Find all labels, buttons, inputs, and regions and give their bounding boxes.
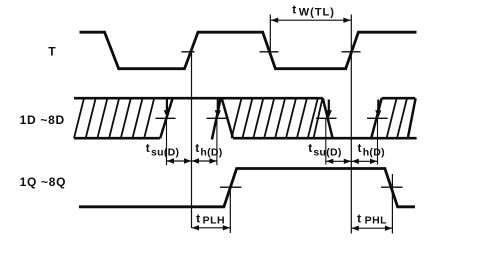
tick on th1 edge	[207, 117, 228, 119]
tick on T rising edge 2	[342, 51, 361, 53]
tick on Q rising edge	[220, 186, 242, 188]
dimension tW(TL) left bar	[269, 15, 271, 52]
transition edge rising at end of stable-high window (th1 edge)	[212, 98, 221, 139]
reference line A from T rising edge 1	[191, 52, 193, 228]
reference line B from T rising edge 2	[350, 52, 352, 234]
dimension th1 arrow line	[192, 160, 217, 162]
down arrow onto tsu2 edge	[328, 100, 330, 111]
tick on Q falling edge	[381, 186, 403, 188]
extension line below tsu1 tick	[166, 118, 168, 165]
extension line below tsu2 tick	[325, 118, 327, 164]
bus bottom rail (band2 through band3)	[233, 137, 417, 140]
dimension tW(TL) left arrowhead	[271, 18, 278, 23]
dimension tPLH right bar	[229, 188, 231, 233]
bus bottom rail band1	[74, 137, 160, 140]
closing edge band3	[408, 98, 416, 138]
extension line below th1 tick	[216, 118, 218, 165]
dimension tsu2 arrow line	[326, 160, 352, 162]
tick on T falling edge 2	[260, 51, 279, 53]
svg-text:1D ~8D: 1D ~8D	[20, 113, 65, 127]
dimension tW(TL) right bar	[350, 15, 352, 52]
bus top rail (band1 through band2)	[74, 97, 323, 100]
hatching band1	[74, 98, 154, 138]
dimension tPHL right bar	[391, 174, 393, 234]
dimension tPLH arrow line	[192, 227, 231, 229]
down arrow onto tsu1 edge	[166, 100, 168, 111]
dimension tPHL arrow line	[351, 227, 392, 229]
bus top rail band3	[382, 97, 416, 100]
down arrow onto th1 edge	[217, 100, 219, 111]
tick on T rising edge 1	[182, 51, 195, 53]
extension line below th2 tick	[377, 118, 379, 164]
svg-text:tPHL: tPHL	[357, 211, 387, 226]
svg-text:th(D): th(D)	[358, 141, 385, 159]
hatching band3	[387, 98, 407, 138]
svg-text:tW(TL): tW(TL)	[292, 2, 335, 18]
dimension th2 arrow line	[351, 160, 377, 162]
svg-text:tsu(D): tsu(D)	[146, 141, 180, 159]
down arrow onto th2 edge	[377, 100, 379, 111]
svg-text:T: T	[48, 45, 56, 59]
svg-text:th(D): th(D)	[195, 141, 222, 159]
tick on tsu1 edge	[156, 117, 176, 119]
transition edge rising into stable-high window (tsu1 edge)	[160, 98, 172, 138]
dimension tW(TL) right arrowhead	[343, 18, 350, 23]
waveform T	[80, 32, 417, 68]
svg-text:tPLH: tPLH	[196, 211, 225, 226]
tick on tsu2 edge	[316, 117, 337, 119]
rising transition edge at end of stable-low window (th2 edge)	[371, 98, 382, 139]
svg-text:1Q ~8Q: 1Q ~8Q	[20, 175, 67, 189]
dimension tW(TL) arrow line	[271, 19, 351, 21]
hatching band2	[232, 98, 323, 138]
svg-text:tsu(D): tsu(D)	[308, 141, 342, 159]
waveform 1Q-8Q	[79, 169, 415, 207]
falling edge opening band2	[222, 98, 233, 138]
dimension tsu1 arrow line	[167, 160, 192, 162]
falling transition edge into stable-low window (tsu2 edge)	[323, 98, 333, 138]
tick on th2 edge	[367, 117, 388, 119]
